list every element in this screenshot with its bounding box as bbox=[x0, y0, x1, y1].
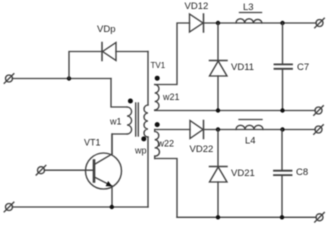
wire VDp to wp top bbox=[147, 52, 149, 106]
w21 polarity dot bbox=[155, 76, 160, 81]
diode VD12 bbox=[190, 14, 204, 32]
svg-text:VD21: VD21 bbox=[231, 168, 255, 179]
terminal XS7 (out bottom) bbox=[315, 213, 325, 223]
svg-text:C8: C8 bbox=[296, 167, 308, 178]
terminal XS4 (out1 +) bbox=[315, 18, 325, 28]
inductor L4 bbox=[236, 125, 263, 129]
diode VD22 bbox=[190, 121, 204, 139]
junction VD11 bottom bbox=[216, 108, 220, 112]
wire out2 line bbox=[204, 129, 316, 131]
wire secondary bottom rail bbox=[177, 216, 316, 218]
wire base bbox=[44, 169, 92, 171]
terminal XS5 (common) bbox=[314, 106, 324, 116]
svg-text:wp: wp bbox=[134, 146, 147, 156]
junction VD11 top bbox=[216, 21, 220, 25]
junction VD21 top bbox=[216, 127, 220, 131]
svg-text:TV1: TV1 bbox=[151, 61, 166, 70]
diode VDp bbox=[102, 43, 148, 61]
capacitor C8 bbox=[274, 130, 292, 218]
transformer core bbox=[135, 103, 137, 136]
wire w1 bottom to collector bbox=[112, 134, 127, 154]
transformer winding wp bbox=[144, 105, 148, 137]
junction C8 top bbox=[280, 127, 284, 131]
svg-text:VD22: VD22 bbox=[190, 144, 214, 155]
svg-text:VD12: VD12 bbox=[185, 1, 209, 12]
svg-text:VD11: VD11 bbox=[231, 62, 254, 73]
diode VD21 bbox=[210, 130, 228, 218]
wire top rail bbox=[204, 22, 317, 24]
junction VD21 bottom bbox=[216, 215, 220, 219]
junction C8 bottom bbox=[280, 215, 284, 219]
inductor L3 bbox=[236, 19, 262, 23]
w1 polarity dot bbox=[128, 99, 133, 104]
wire emitter bbox=[111, 186, 113, 207]
terminal XS1 (input left top) bbox=[4, 74, 14, 84]
svg-text:L3: L3 bbox=[243, 2, 254, 13]
L3 core line bbox=[240, 12, 262, 14]
wire junction to VDp branch bbox=[69, 52, 102, 79]
terminal XS6 (out2 +) bbox=[314, 125, 324, 135]
terminal XS3 (bottom left) bbox=[4, 202, 14, 212]
terminal XS2 (base input) bbox=[36, 165, 46, 175]
svg-text:C7: C7 bbox=[297, 62, 309, 73]
transformer TV1 winding w1 bbox=[127, 107, 132, 134]
transformer winding w21 bbox=[155, 85, 159, 111]
junction input branch bbox=[67, 76, 71, 80]
transformer winding w22 bbox=[155, 130, 160, 159]
svg-text:w1: w1 bbox=[109, 117, 122, 127]
diode VD11 bbox=[210, 23, 228, 111]
wp polarity dot bbox=[141, 136, 146, 141]
wire collector bbox=[111, 134, 113, 154]
wire w1 top feed bbox=[111, 79, 127, 108]
svg-text:VDp: VDp bbox=[97, 24, 115, 35]
w22 polarity dot bbox=[155, 122, 160, 127]
wire mid rail bbox=[155, 110, 316, 112]
junction C7 top bbox=[280, 21, 284, 25]
svg-text:w21: w21 bbox=[162, 92, 180, 102]
wire w22 top to VD22 bbox=[155, 129, 190, 131]
svg-text:L4: L4 bbox=[245, 136, 256, 147]
capacitor C7 bbox=[275, 23, 293, 111]
svg-text:w22: w22 bbox=[157, 139, 175, 149]
wire wp bottom to primary rail bbox=[147, 137, 149, 207]
svg-text:VT1: VT1 bbox=[84, 138, 101, 148]
wire primary bottom rail bbox=[12, 206, 148, 208]
wire w21 top to VD12 bbox=[155, 23, 190, 85]
L4 core line bbox=[239, 119, 262, 121]
transistor VT1 bbox=[86, 153, 122, 189]
junction C7 bottom bbox=[280, 108, 284, 112]
wire w22 bottom to secondary rail bbox=[155, 159, 177, 218]
junction emitter-rail bbox=[110, 205, 114, 209]
wire input top bbox=[12, 78, 111, 80]
